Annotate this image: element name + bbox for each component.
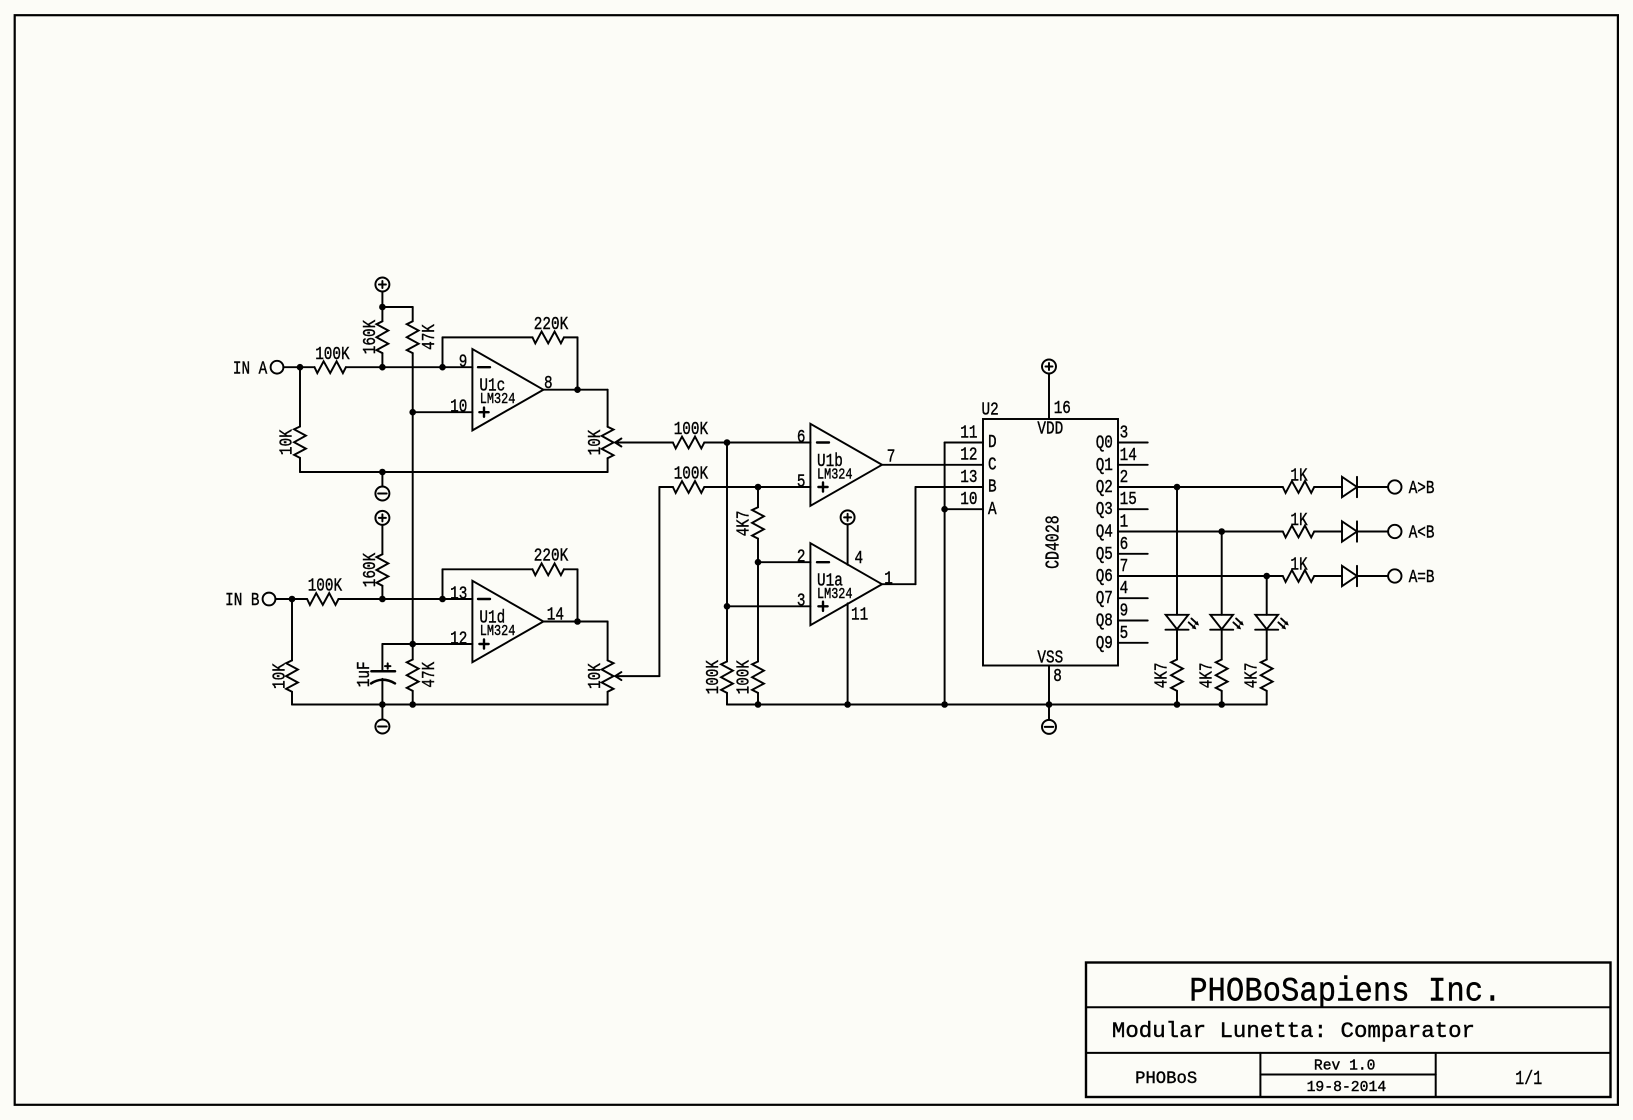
svg-text:1K: 1K	[1290, 555, 1307, 575]
wire R1 to U1c pin 9	[346, 366, 473, 368]
pin Q3 stub	[1118, 508, 1148, 510]
node 160K-B bottom	[379, 596, 386, 603]
svg-text:19-8-2014: 19-8-2014	[1307, 1080, 1387, 1096]
svg-text:Q0: Q0	[1096, 434, 1113, 454]
wire pot A wiper	[615, 442, 673, 444]
svg-text:Q7: Q7	[1096, 589, 1113, 609]
LED1	[1166, 615, 1189, 629]
svg-text:9: 9	[1120, 602, 1129, 622]
svg-text:100K: 100K	[315, 345, 350, 365]
resistor 100K (R7) to U1b pin6	[673, 437, 704, 449]
power +V symbol VDD	[1042, 360, 1056, 374]
pin Q5 stub	[1118, 553, 1148, 555]
svg-text:1uF: 1uF	[355, 661, 375, 687]
trimpot 10K (R6) A level	[607, 390, 609, 427]
svg-text:13: 13	[960, 468, 977, 488]
svg-text:160K: 160K	[361, 553, 381, 588]
connector A=B	[1388, 569, 1401, 582]
wire Q4 to LED2	[1221, 532, 1223, 615]
IC U2 CD4028 body	[983, 419, 1118, 666]
svg-text:12: 12	[960, 446, 977, 466]
svg-text:Q9: Q9	[1096, 634, 1113, 654]
connector IN A	[271, 361, 284, 374]
svg-text:4: 4	[1120, 579, 1129, 599]
resistor 160K (R3) pull-up A	[381, 307, 383, 321]
resistor 100K (R14) to U1b pin5	[673, 481, 704, 493]
svg-text:VSS: VSS	[1037, 649, 1063, 669]
svg-text:16: 16	[1054, 399, 1071, 419]
wire ground rail left	[292, 704, 608, 706]
resistor 10K (R9) IN B to rail	[291, 599, 293, 660]
svg-text:4K7: 4K7	[735, 511, 755, 537]
svg-text:6: 6	[1120, 535, 1129, 555]
svg-text:3: 3	[797, 592, 806, 612]
svg-text:10: 10	[450, 398, 467, 418]
node feedback tap A	[439, 364, 446, 371]
svg-text:PHOBoSapiens Inc.: PHOBoSapiens Inc.	[1189, 973, 1501, 1012]
node 160K bottom	[379, 364, 386, 371]
op-amp U1b	[810, 424, 882, 506]
resistor 1K output A<B	[1283, 526, 1314, 538]
svg-text:4K7: 4K7	[1197, 663, 1217, 689]
pin Q0 stub	[1118, 442, 1148, 444]
svg-text:5: 5	[797, 472, 806, 492]
svg-text:11: 11	[851, 606, 868, 626]
resistor 4K7 LED3	[1261, 660, 1273, 691]
resistor 1K output A>B	[1283, 481, 1314, 493]
wire ref to U1d pin 12	[413, 643, 473, 645]
svg-text:100K: 100K	[735, 660, 755, 695]
svg-text:IN B: IN B	[225, 591, 260, 611]
svg-text:C: C	[988, 455, 997, 475]
diode D2	[1342, 521, 1357, 541]
svg-text:100K: 100K	[704, 660, 724, 695]
wire U1a pin 2	[758, 561, 810, 563]
svg-text:14: 14	[1120, 446, 1137, 466]
svg-text:A>B: A>B	[1409, 479, 1435, 499]
svg-text:CD4028: CD4028	[1042, 515, 1064, 569]
resistor 100K (R8) IN B series	[307, 593, 338, 605]
wire 47K down to pin10 node	[412, 353, 414, 412]
svg-text:10K: 10K	[277, 429, 297, 455]
svg-text:5: 5	[1120, 624, 1129, 644]
svg-text:10K: 10K	[586, 429, 606, 455]
svg-text:Modular Lunetta: Comparator: Modular Lunetta: Comparator	[1112, 1018, 1475, 1044]
power +V symbol B	[375, 511, 389, 525]
svg-text:11: 11	[960, 423, 977, 443]
resistor 47K (R12) lower divider	[412, 644, 414, 660]
wire U1a out to IC pin B	[882, 583, 916, 585]
wire LED3 to 4K7	[1266, 630, 1268, 660]
diode D3	[1342, 566, 1357, 586]
node D ground line on rail	[941, 701, 948, 708]
svg-text:Rev 1.0: Rev 1.0	[1314, 1058, 1376, 1074]
op-amp U1d	[472, 581, 543, 662]
wire VSS to rail	[1048, 666, 1050, 705]
svg-text:10K: 10K	[586, 663, 606, 689]
svg-text:LM324: LM324	[480, 392, 516, 408]
pin Q7 stub	[1118, 597, 1148, 599]
svg-text:1K: 1K	[1290, 466, 1307, 486]
op-amp U1c	[472, 349, 543, 430]
resistor 160K (R10) pull-up B	[381, 525, 383, 554]
node LED1 on rail	[1174, 701, 1181, 708]
wire U1d output	[543, 621, 607, 623]
connector A>B	[1388, 480, 1401, 493]
svg-text:10: 10	[960, 490, 977, 510]
wire LED2 to 4K7	[1221, 630, 1223, 660]
svg-text:1/1: 1/1	[1515, 1068, 1542, 1090]
svg-text:LM324: LM324	[817, 468, 853, 484]
svg-text:LM324: LM324	[817, 587, 853, 603]
svg-text:10K: 10K	[270, 663, 290, 689]
wire ground rail right	[727, 704, 1267, 706]
wire diode to connector A>B	[1357, 486, 1388, 488]
svg-text:4K7: 4K7	[1153, 663, 1173, 689]
node cap bottom on rail	[379, 701, 386, 708]
svg-text:PHOBoS: PHOBoS	[1135, 1069, 1197, 1089]
node pin A tap	[941, 506, 948, 513]
svg-text:A: A	[988, 500, 997, 520]
node 47K bottom on rail	[409, 701, 416, 708]
svg-text:2: 2	[1120, 468, 1129, 488]
svg-text:9: 9	[459, 353, 468, 373]
svg-text:100K: 100K	[674, 420, 709, 440]
svg-text:12: 12	[450, 629, 467, 649]
wire ref node down to pin12 node	[412, 412, 414, 644]
capacitor 1uF (C1) ref bypass	[381, 644, 383, 671]
node +V junction	[379, 304, 386, 311]
svg-text:6: 6	[797, 428, 806, 448]
svg-text:1: 1	[1120, 513, 1129, 533]
wire cap top to pin12 node	[382, 643, 412, 645]
node VSS on rail	[1046, 701, 1053, 708]
node pin12 ref	[409, 641, 416, 648]
resistor 100K (R1) IN A series	[315, 361, 346, 373]
node feedback tap B	[439, 596, 446, 603]
wire IN A to R1	[283, 366, 314, 368]
node U1a pin3 tap	[724, 603, 731, 610]
pin Q2 stub	[1118, 486, 1283, 488]
svg-text:U2: U2	[982, 400, 999, 420]
wire Q2 to LED1	[1176, 487, 1178, 615]
svg-text:Q8: Q8	[1096, 612, 1113, 632]
svg-text:7: 7	[1120, 557, 1129, 577]
pin Q9 stub	[1118, 642, 1148, 644]
wire rail A	[300, 471, 608, 473]
svg-text:Q3: Q3	[1096, 500, 1113, 520]
svg-text:Q4: Q4	[1096, 523, 1113, 543]
svg-text:220K: 220K	[534, 547, 569, 567]
svg-text:14: 14	[547, 606, 564, 626]
pin Q1 stub	[1118, 464, 1148, 466]
svg-text:Q5: Q5	[1096, 545, 1113, 565]
wire ref to U1c pin 10	[413, 411, 473, 413]
pin Q4 stub	[1118, 531, 1283, 533]
resistor 220K (R11) U1d feedback	[442, 569, 444, 599]
resistor 100K (R17) B node to rail	[757, 562, 759, 661]
wire A node down	[726, 443, 728, 607]
power +V symbol U1a pin4	[841, 510, 855, 524]
connector IN B	[263, 593, 276, 606]
trimpot 10K (R13) B level	[607, 622, 609, 661]
wire 1K to diode A<B	[1314, 531, 1342, 533]
wire U1c output	[543, 389, 607, 391]
svg-text:3: 3	[1120, 424, 1129, 444]
connector A<B	[1388, 525, 1401, 538]
node U1d out	[574, 618, 581, 625]
wire ground to IC pin A	[945, 508, 983, 510]
wire U1b out to IC pin C	[882, 464, 983, 466]
svg-text:220K: 220K	[534, 315, 569, 335]
node IN A junction	[297, 364, 304, 371]
svg-text:15: 15	[1120, 490, 1137, 510]
wire R7 to U1b pin 6	[704, 442, 810, 444]
svg-text:2: 2	[797, 548, 806, 568]
resistor 1K output A=B	[1283, 570, 1314, 582]
LED3	[1255, 615, 1278, 629]
node R17 on rail	[755, 701, 762, 708]
LED2	[1210, 615, 1233, 629]
resistor 4K7 (R16) offset	[757, 487, 759, 507]
wire R8 to U1d pin 13	[339, 598, 473, 600]
svg-text:1K: 1K	[1290, 511, 1307, 531]
wire U1a pin11 to rail	[847, 603, 849, 704]
wire diode to connector A<B	[1357, 531, 1388, 533]
svg-text:4: 4	[855, 549, 864, 569]
title block frame	[1086, 963, 1611, 1098]
svg-text:8: 8	[1053, 667, 1062, 687]
wire LED1 to 4K7	[1176, 630, 1178, 660]
resistor 47K (R4) upper divider	[412, 307, 414, 321]
resistor 220K (R5) U1c feedback	[442, 337, 444, 367]
power +V symbol A	[375, 278, 389, 292]
power -V symbol VSS	[1048, 705, 1050, 720]
svg-text:IN A: IN A	[233, 359, 268, 379]
svg-text:D: D	[988, 433, 997, 453]
wire IN B to R8	[275, 598, 307, 600]
svg-text:LM324: LM324	[480, 624, 516, 640]
svg-text:B: B	[988, 478, 997, 498]
svg-text:4K7: 4K7	[1242, 663, 1262, 689]
svg-text:A=B: A=B	[1409, 568, 1435, 588]
node rail A power tap	[379, 469, 386, 476]
wire pot B wiper to 100K	[615, 675, 659, 677]
resistor 4K7 LED2	[1216, 660, 1228, 691]
resistor 100K (R15) A node to rail	[726, 606, 728, 661]
resistor 10K (R2) IN A to rail	[299, 367, 301, 426]
diode D1	[1342, 477, 1357, 497]
power -V symbol B	[381, 705, 383, 720]
svg-text:1: 1	[884, 569, 893, 589]
node comparator B node	[755, 484, 762, 491]
node LED2 on rail	[1218, 701, 1225, 708]
wire R14 to U1b pin 5	[704, 486, 810, 488]
svg-text:A<B: A<B	[1409, 523, 1435, 543]
svg-text:Q6: Q6	[1096, 567, 1113, 587]
pin Q6 stub	[1118, 575, 1283, 577]
power -V symbol A	[381, 472, 383, 487]
wire +V to 47K top	[382, 306, 412, 308]
node U1c out	[574, 386, 581, 393]
pin Q8 stub	[1118, 620, 1148, 622]
svg-text:47K: 47K	[420, 662, 440, 688]
svg-text:13: 13	[450, 584, 467, 604]
node pin10 ref	[409, 409, 416, 416]
svg-text:100K: 100K	[308, 577, 343, 597]
op-amp U1a	[810, 543, 882, 625]
svg-text:160K: 160K	[361, 320, 381, 355]
svg-text:47K: 47K	[420, 324, 440, 350]
node comparator A node	[724, 439, 731, 446]
wire Q6 to LED3	[1266, 576, 1268, 615]
svg-text:Q2: Q2	[1096, 478, 1113, 498]
node pin11 on rail	[844, 701, 851, 708]
wire diode to connector A=B	[1357, 575, 1388, 577]
wire 1K to diode A>B	[1314, 486, 1342, 488]
node U1a pin2 tap	[755, 559, 762, 566]
wire ground to IC pin D	[945, 442, 983, 444]
svg-text:8: 8	[544, 374, 553, 394]
svg-text:Q1: Q1	[1096, 456, 1113, 476]
wire 1K to diode A=B	[1314, 575, 1342, 577]
node IN B junction	[289, 596, 296, 603]
svg-text:VDD: VDD	[1037, 420, 1063, 440]
wire U1a pin 3	[727, 605, 810, 607]
svg-text:100K: 100K	[674, 465, 709, 485]
resistor 4K7 LED1	[1171, 660, 1183, 691]
